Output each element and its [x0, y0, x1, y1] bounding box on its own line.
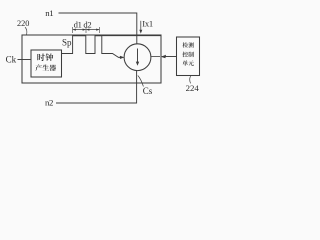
clock generator text line1 (shi zhong) — [37, 53, 53, 61]
svg-text:Ix1: Ix1 — [142, 19, 153, 29]
svg-text:Sp: Sp — [62, 37, 72, 47]
wire n1 to current source top rail — [59, 13, 137, 44]
leader line from label 220 — [25, 27, 27, 35]
clock generator text line2 (chan sheng qi) — [35, 64, 56, 71]
wire current source bottom to n2 (node Cs) — [136, 71, 138, 104]
detection control unit box 224 — [177, 37, 200, 76]
wire detection unit to current source — [162, 56, 177, 58]
block 220 outer box — [22, 35, 161, 83]
svg-text:Cs: Cs — [143, 86, 153, 96]
wire n2 — [56, 102, 137, 104]
detection unit text line1 (jian ce) — [182, 42, 193, 47]
label Ix1 with down arrow — [140, 21, 142, 30]
arrowhead pointing left at box edge — [161, 55, 166, 59]
svg-text:224: 224 — [186, 83, 200, 93]
current source Ix1 circle — [124, 44, 151, 71]
wire Ck input — [18, 59, 32, 61]
detection unit text line3 (dan yuan) — [182, 60, 193, 65]
wire Sp pulse waveform — [62, 36, 122, 58]
detection unit text line2 (kong zhi) — [182, 52, 193, 57]
arrowhead into current source — [120, 56, 125, 59]
wire pulse top rail to box edge — [102, 35, 161, 37]
svg-text:n1: n1 — [45, 8, 53, 18]
svg-text:d1 d2: d1 d2 — [74, 20, 92, 30]
leader line from 224 — [189, 76, 192, 83]
svg-text:n2: n2 — [45, 98, 53, 108]
dimension arrows d1 d2 — [73, 27, 100, 33]
svg-text:Ck: Ck — [6, 55, 17, 65]
svg-text:220: 220 — [17, 19, 29, 28]
leader line Cs — [138, 76, 144, 87]
clock generator box — [31, 50, 62, 77]
current source internal arrow — [137, 49, 139, 64]
